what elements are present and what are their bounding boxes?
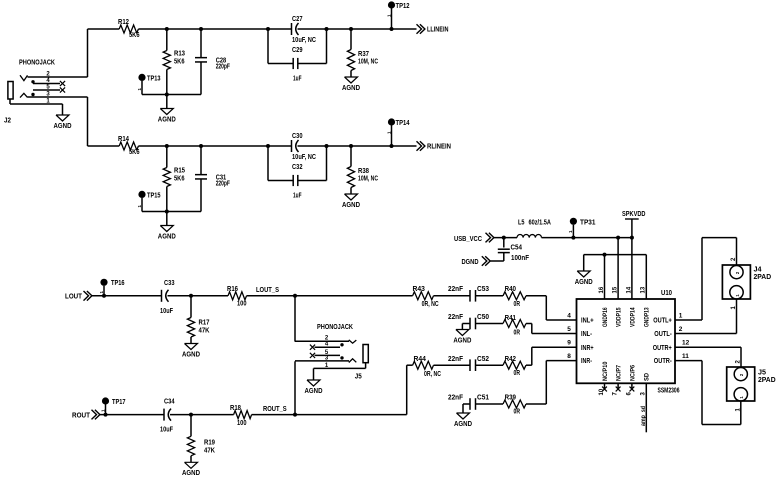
- svg-text:R15: R15: [174, 168, 185, 175]
- svg-text:16: 16: [599, 286, 605, 293]
- svg-text:INL-: INL-: [581, 331, 593, 338]
- svg-text:10M, NC: 10M, NC: [358, 59, 378, 66]
- svg-text:100: 100: [237, 300, 247, 307]
- svg-text:R43: R43: [413, 286, 426, 293]
- svg-text:GNDP13: GNDP13: [644, 307, 651, 327]
- svg-text:10uF, NC: 10uF, NC: [292, 37, 316, 44]
- svg-text:15: 15: [613, 286, 619, 293]
- svg-text:1uF: 1uF: [293, 193, 302, 200]
- svg-text:C30: C30: [292, 133, 303, 140]
- svg-text:USB_VCC: USB_VCC: [454, 236, 482, 243]
- svg-text:R18: R18: [230, 405, 241, 412]
- svg-text:6: 6: [626, 392, 632, 396]
- svg-text:1: 1: [679, 312, 683, 319]
- svg-text:J5: J5: [355, 374, 362, 381]
- svg-text:AGND: AGND: [182, 470, 200, 477]
- svg-text:C32: C32: [292, 164, 303, 171]
- svg-text:9: 9: [567, 340, 571, 347]
- svg-text:L5: L5: [518, 219, 525, 226]
- svg-text:11: 11: [682, 353, 689, 360]
- svg-text:10uF: 10uF: [160, 308, 174, 315]
- svg-text:OUTL-: OUTL-: [654, 331, 672, 338]
- svg-text:100: 100: [237, 420, 247, 427]
- svg-text:NC/P6: NC/P6: [629, 365, 636, 381]
- svg-text:AGND: AGND: [453, 337, 471, 344]
- svg-text:TP14: TP14: [396, 120, 410, 127]
- svg-text:R44: R44: [414, 356, 427, 363]
- svg-text:R39: R39: [505, 395, 516, 402]
- svg-text:0R: 0R: [514, 408, 521, 415]
- svg-text:R38: R38: [358, 168, 369, 175]
- svg-text:R19: R19: [204, 440, 215, 447]
- svg-text:10uF: 10uF: [160, 427, 174, 434]
- svg-text:TP16: TP16: [111, 280, 125, 287]
- svg-text:OUTR+: OUTR+: [653, 345, 672, 352]
- svg-text:C52: C52: [477, 356, 489, 363]
- svg-text:TP17: TP17: [112, 399, 126, 406]
- svg-text:amp_sd: amp_sd: [640, 406, 647, 426]
- svg-text:R37: R37: [358, 51, 369, 58]
- svg-text:TP15: TP15: [147, 193, 161, 200]
- svg-text:PHONOJACK: PHONOJACK: [317, 324, 353, 331]
- svg-text:0R: 0R: [514, 329, 521, 336]
- svg-text:J5: J5: [758, 369, 766, 376]
- svg-text:R17: R17: [199, 320, 210, 327]
- svg-text:2PAD: 2PAD: [754, 274, 772, 281]
- svg-text:12: 12: [682, 340, 690, 347]
- svg-text:4: 4: [567, 312, 571, 319]
- svg-text:R14: R14: [118, 136, 129, 143]
- svg-text:SPKVDD: SPKVDD: [622, 211, 646, 218]
- svg-text:GNDP16: GNDP16: [602, 307, 609, 327]
- svg-text:VDDP14: VDDP14: [629, 307, 636, 327]
- svg-text:1: 1: [735, 294, 740, 297]
- svg-text:SD: SD: [644, 373, 651, 381]
- svg-text:ROUT_S: ROUT_S: [263, 406, 287, 413]
- svg-text:LOUT_S: LOUT_S: [256, 287, 279, 294]
- svg-text:R41: R41: [505, 315, 516, 322]
- svg-text:47K: 47K: [199, 327, 210, 334]
- svg-text:22nF: 22nF: [448, 286, 464, 293]
- svg-text:R16: R16: [227, 286, 238, 293]
- svg-text:AGND: AGND: [305, 388, 323, 395]
- svg-text:SSM2306: SSM2306: [658, 387, 680, 394]
- svg-text:ROUT: ROUT: [72, 412, 91, 419]
- svg-text:C51: C51: [477, 395, 489, 402]
- svg-text:47K: 47K: [204, 448, 215, 455]
- svg-text:220pF: 220pF: [216, 64, 231, 71]
- svg-text:22nF: 22nF: [448, 314, 464, 321]
- svg-text:0R: 0R: [514, 370, 521, 377]
- svg-text:NC/P7: NC/P7: [616, 365, 623, 381]
- svg-text:5K6: 5K6: [174, 58, 185, 65]
- svg-text:100nF: 100nF: [511, 255, 530, 262]
- svg-text:C34: C34: [164, 398, 175, 405]
- svg-text:INR-: INR-: [581, 358, 593, 365]
- svg-text:R12: R12: [118, 19, 129, 26]
- svg-text:5K6: 5K6: [174, 175, 185, 182]
- svg-text:2: 2: [735, 271, 740, 274]
- svg-text:DGND: DGND: [462, 259, 479, 266]
- svg-text:C54: C54: [511, 245, 523, 252]
- svg-text:8: 8: [567, 353, 571, 360]
- svg-text:AGND: AGND: [158, 116, 176, 123]
- svg-text:C27: C27: [292, 16, 303, 23]
- svg-text:22nF: 22nF: [448, 395, 464, 402]
- svg-text:AGND: AGND: [182, 351, 200, 358]
- svg-text:PHONOJACK: PHONOJACK: [19, 60, 55, 67]
- svg-text:0R: 0R: [514, 301, 521, 308]
- svg-text:60z/1.5A: 60z/1.5A: [529, 219, 552, 226]
- svg-text:NC/P10: NC/P10: [602, 361, 609, 381]
- svg-text:AGND: AGND: [575, 279, 593, 286]
- svg-text:J4: J4: [754, 267, 762, 274]
- svg-text:R42: R42: [505, 356, 516, 363]
- svg-text:INL+: INL+: [581, 318, 594, 325]
- svg-text:TP13: TP13: [147, 76, 161, 83]
- svg-text:R40: R40: [505, 286, 516, 293]
- svg-text:0R, NC: 0R, NC: [424, 371, 441, 378]
- svg-text:C53: C53: [477, 286, 489, 293]
- svg-text:C29: C29: [292, 47, 303, 54]
- svg-text:INR+: INR+: [581, 345, 594, 352]
- svg-text:TP12: TP12: [396, 3, 410, 10]
- svg-text:1: 1: [739, 396, 744, 399]
- svg-text:5: 5: [567, 326, 571, 333]
- svg-text:5K6: 5K6: [129, 149, 140, 156]
- svg-text:10uF, NC: 10uF, NC: [292, 154, 316, 161]
- svg-text:RLINEIN: RLINEIN: [427, 144, 451, 151]
- svg-text:AGND: AGND: [158, 233, 176, 240]
- svg-text:0R, NC: 0R, NC: [422, 301, 439, 308]
- svg-text:OUTR-: OUTR-: [654, 358, 673, 365]
- svg-text:U10: U10: [661, 290, 672, 297]
- svg-text:C33: C33: [164, 280, 175, 287]
- svg-text:5K6: 5K6: [129, 32, 140, 39]
- svg-text:OUTL+: OUTL+: [653, 318, 672, 325]
- svg-text:TP31: TP31: [580, 219, 596, 226]
- svg-text:2PAD: 2PAD: [758, 377, 776, 384]
- svg-text:1uF: 1uF: [293, 76, 302, 83]
- svg-text:AGND: AGND: [342, 85, 360, 92]
- svg-text:AGND: AGND: [54, 123, 72, 130]
- svg-text:2: 2: [679, 326, 683, 333]
- svg-text:220pF: 220pF: [216, 181, 231, 188]
- svg-text:10M, NC: 10M, NC: [358, 176, 378, 183]
- svg-text:AGND: AGND: [342, 202, 360, 209]
- svg-text:C50: C50: [477, 314, 489, 321]
- svg-text:AGND: AGND: [454, 421, 472, 428]
- svg-text:VDDP15: VDDP15: [616, 307, 623, 327]
- svg-text:13: 13: [641, 286, 647, 293]
- svg-text:J2: J2: [4, 118, 11, 125]
- svg-text:R13: R13: [174, 51, 185, 58]
- svg-text:7: 7: [613, 392, 619, 396]
- svg-text:1: 1: [568, 230, 573, 233]
- svg-text:LOUT: LOUT: [65, 294, 83, 301]
- svg-text:22nF: 22nF: [448, 356, 464, 363]
- svg-text:LLINEIN: LLINEIN: [427, 27, 449, 34]
- svg-text:2: 2: [739, 373, 744, 376]
- svg-text:14: 14: [626, 286, 632, 293]
